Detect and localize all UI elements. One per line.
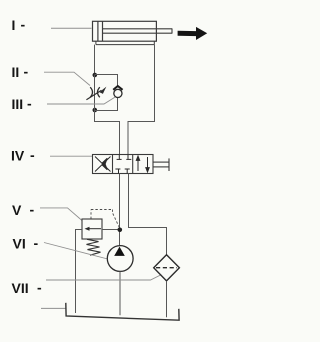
node B junction dot — [93, 108, 98, 113]
svg-text:V: V — [12, 202, 22, 218]
directional valve IV body — [93, 155, 154, 174]
leader line IV — [50, 155, 92, 157]
motion arrow — [178, 27, 208, 40]
wire valve IV bottom left port to node C — [119, 174, 121, 246]
svg-text:-: - — [30, 147, 35, 163]
svg-text:VI: VI — [13, 236, 26, 252]
svg-text:-: - — [30, 202, 35, 218]
valve IV left cell crossed arrows — [95, 157, 111, 172]
svg-text:-: - — [21, 17, 26, 33]
cylinder I body — [93, 21, 157, 41]
wire cylinder left port to node A — [94, 45, 96, 75]
wire node B to valve IV left top port — [95, 110, 120, 155]
leader line III — [47, 97, 115, 104]
throttle valve II arcs — [90, 87, 100, 97]
relief valve V internal arrow — [88, 228, 102, 230]
node A junction dot — [93, 73, 98, 78]
relief valve V body — [82, 219, 102, 239]
pump VI triangle — [114, 247, 125, 256]
svg-text:III: III — [12, 96, 24, 112]
filter VII diamond — [154, 255, 180, 281]
svg-text:I: I — [12, 17, 16, 33]
wire valve IV bottom right port to filter — [129, 174, 167, 256]
svg-text:IV: IV — [11, 148, 25, 164]
svg-text:-: - — [24, 64, 29, 80]
leader line I — [51, 27, 92, 29]
relief valve V spring — [87, 239, 101, 255]
svg-text:-: - — [34, 235, 39, 251]
svg-text:-: - — [37, 280, 42, 296]
check valve III seat — [113, 86, 122, 90]
filter VII element dashed — [156, 267, 177, 269]
leader line tank — [41, 307, 66, 309]
tank — [66, 303, 179, 320]
valve IV middle cell blocked ports — [115, 155, 131, 174]
leader line V — [40, 208, 82, 221]
relief valve V pilot dashed box — [91, 210, 120, 229]
wire bypass loop — [95, 75, 118, 87]
leader line VI — [44, 243, 108, 260]
wire relief valve drain to tank — [76, 230, 83, 314]
leader line VII — [46, 275, 161, 280]
valve IV right cell arrows — [136, 156, 149, 172]
check valve III ball — [114, 89, 122, 97]
throttle valve II adjust arrow — [86, 90, 101, 100]
leader line II — [44, 72, 90, 85]
svg-text:II: II — [12, 64, 20, 80]
svg-text:-: - — [27, 96, 32, 112]
wire main line through throttle — [94, 75, 96, 110]
cylinder I base plate — [96, 41, 154, 44]
valve IV manual actuator — [153, 158, 169, 171]
wire cylinder right port down — [128, 45, 155, 155]
wire relief valve to node C — [102, 229, 120, 231]
cylinder I piston rod — [103, 28, 173, 33]
svg-text:VII: VII — [12, 280, 29, 296]
node C junction dot — [118, 228, 123, 233]
pump VI circle — [107, 246, 133, 272]
wire filter to tank — [166, 281, 168, 317]
wire pump to tank — [119, 271, 121, 315]
